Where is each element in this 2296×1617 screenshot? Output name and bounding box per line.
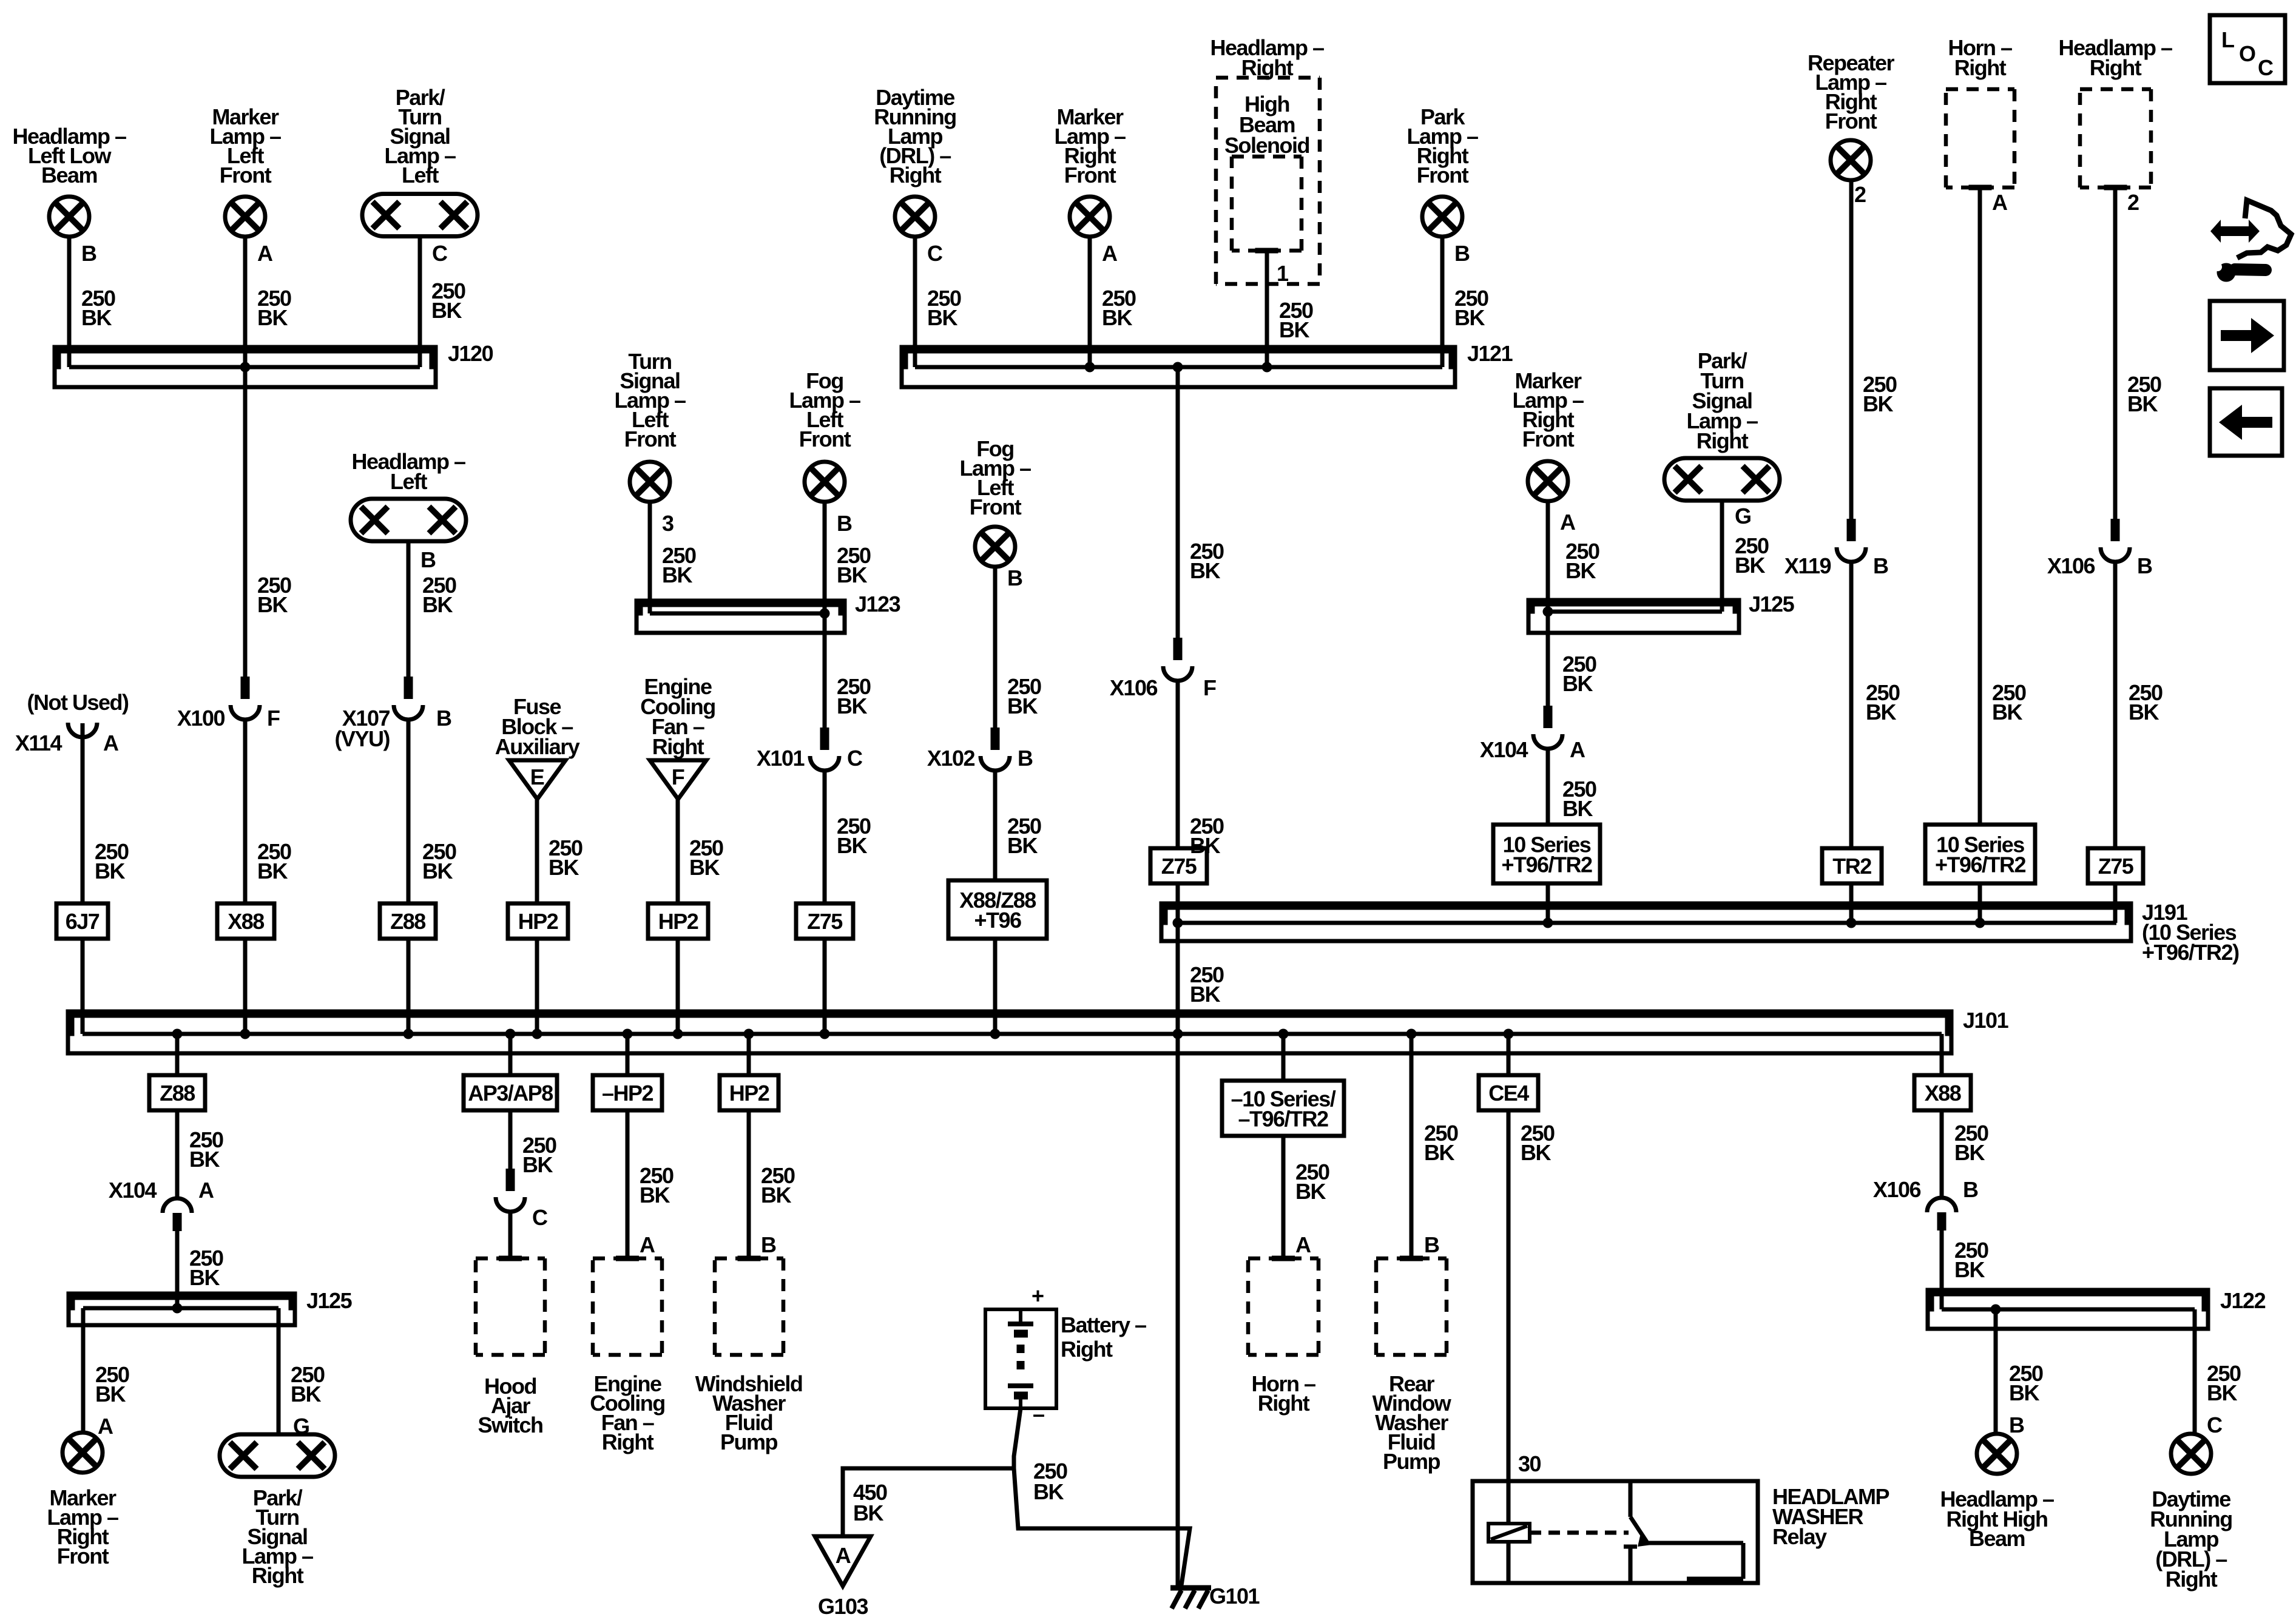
svg-text:A: A xyxy=(1560,510,1576,535)
svg-text:B: B xyxy=(837,511,852,536)
svg-text:Front: Front xyxy=(1064,163,1116,187)
wire Z75 to J191 xyxy=(2113,883,2118,923)
forward arrow box xyxy=(2210,301,2284,370)
svg-text:BK: BK xyxy=(640,1183,670,1207)
svg-text:BK: BK xyxy=(761,1183,791,1207)
label Marker Lamp - Right Front xyxy=(1054,104,1126,187)
svg-text:Beam: Beam xyxy=(41,163,97,187)
label Headlamp - Right xyxy=(1210,35,1324,80)
svg-text:BK: BK xyxy=(422,859,453,883)
svg-text:X119: X119 xyxy=(1784,553,1831,578)
wire value 250 BK xyxy=(1454,286,1488,330)
net box 10 Series +T96/TR2 xyxy=(1925,825,2035,883)
pin G xyxy=(1735,504,1751,528)
svg-text:BK: BK xyxy=(853,1501,883,1525)
lamp Headlamp - Right High Beam xyxy=(1977,1434,2017,1474)
svg-text:BK: BK xyxy=(1007,694,1038,718)
wire TR2 to J191 xyxy=(1849,883,1854,923)
svg-text:B: B xyxy=(2009,1413,2024,1437)
wire value 250 BK xyxy=(837,674,871,718)
wire J101 to G101 ground xyxy=(1176,1034,1180,1587)
wire J125 to X104 xyxy=(1546,612,1550,721)
svg-text:Auxiliary: Auxiliary xyxy=(495,734,580,759)
wire J101 to X88 xyxy=(1940,1034,1944,1075)
label X106 xyxy=(1110,675,1158,700)
component Windshield Washer Pump dashed box xyxy=(715,1258,783,1355)
label Hood Ajar Switch xyxy=(478,1374,542,1437)
label Marker Lamp - Right Front xyxy=(47,1485,118,1568)
svg-text:30: 30 xyxy=(1518,1451,1541,1476)
lamp Daytime Running Lamp - Right xyxy=(2171,1434,2211,1474)
connector X107 xyxy=(394,677,423,720)
svg-text:A: A xyxy=(836,1543,851,1568)
pin A xyxy=(1570,737,1585,762)
wire value 250 BK xyxy=(1190,962,1224,1007)
label Horn - Right xyxy=(1251,1371,1315,1416)
pin C xyxy=(2207,1413,2223,1437)
wire repeater 2 to X119 xyxy=(1849,180,1854,535)
svg-text:BK: BK xyxy=(189,1147,220,1172)
wire AP3/AP8 to C connector xyxy=(508,1110,513,1183)
net box Z88 xyxy=(380,903,436,939)
label X106 xyxy=(2047,553,2095,578)
wire J122 to headlamp high beam xyxy=(1994,1309,1998,1434)
svg-text:BK: BK xyxy=(2129,700,2159,724)
label Repeater Lamp - Right Front xyxy=(1808,50,1895,133)
wire 10-series to J191 xyxy=(1978,883,1982,923)
label J101 xyxy=(1963,1008,2009,1033)
wire value 250 BK xyxy=(837,543,871,587)
svg-text:BK: BK xyxy=(257,592,288,617)
svg-text:G: G xyxy=(1735,504,1751,528)
svg-text:Pump: Pump xyxy=(720,1430,778,1454)
wire X104 to 10-Series box xyxy=(1546,748,1550,825)
svg-text:–: – xyxy=(1033,1402,1044,1426)
wire X102 to X88/Z88 box xyxy=(993,769,998,880)
svg-text:BK: BK xyxy=(95,1382,126,1406)
svg-text:BK: BK xyxy=(1562,796,1593,821)
wire X104 to J125 xyxy=(175,1231,180,1308)
net box HP2 xyxy=(720,1075,778,1110)
wire J101 to Z88 xyxy=(175,1034,180,1075)
svg-text:CE4: CE4 xyxy=(1488,1081,1529,1106)
label X100 xyxy=(177,706,225,731)
wire J120 to X100 xyxy=(243,367,248,692)
net box Z75 xyxy=(1150,848,1207,883)
pin A xyxy=(1992,190,2008,215)
wire value 250 BK xyxy=(1954,1238,1988,1282)
pin B xyxy=(1454,241,1470,266)
label Marker Lamp - Left Front xyxy=(209,104,281,187)
wire J101 to CE4 xyxy=(1507,1034,1511,1075)
label Turn Signal Lamp - Left Front xyxy=(614,349,686,451)
wire value 250 BK xyxy=(662,543,696,587)
label Engine Cooling Fan - Right xyxy=(640,674,715,759)
wire value 250 BK xyxy=(2207,1361,2241,1405)
label Park/Turn Signal Lamp - Right xyxy=(241,1485,313,1588)
svg-text:G103: G103 xyxy=(818,1594,868,1617)
wire value 250 BK xyxy=(2129,680,2163,724)
splice pack J122 xyxy=(1928,1290,2208,1329)
svg-text:HP2: HP2 xyxy=(729,1081,769,1106)
svg-text:J101: J101 xyxy=(1963,1008,2009,1033)
connector X104 flipped xyxy=(163,1198,192,1231)
svg-text:L: L xyxy=(2221,27,2234,52)
pin B xyxy=(1007,565,1022,590)
wire value 250 BK xyxy=(1565,539,1599,583)
splice pack J125 xyxy=(1528,600,1739,633)
splice pack J101 xyxy=(68,1011,1951,1053)
connector X101 xyxy=(810,727,839,771)
svg-text:J125: J125 xyxy=(1749,592,1795,616)
svg-text:Front: Front xyxy=(970,495,1022,519)
wire value 250 BK xyxy=(95,839,129,883)
label X119 xyxy=(1784,553,1831,578)
wire value 250 BK xyxy=(1007,814,1041,858)
svg-text:Z88: Z88 xyxy=(160,1081,195,1106)
battery internal symbol xyxy=(1008,1309,1033,1408)
svg-text:BK: BK xyxy=(1992,700,2022,724)
pin A xyxy=(640,1232,655,1257)
wire Z75 through J191 to J101 xyxy=(1176,883,1180,1034)
label Park/Turn Signal Lamp - Left xyxy=(384,85,456,187)
svg-text:B: B xyxy=(1424,1232,1439,1257)
wire 450 BK branch to G103 xyxy=(843,1468,1014,1536)
label J125 xyxy=(306,1288,353,1313)
svg-text:BK: BK xyxy=(95,859,125,883)
connector X100 xyxy=(231,677,260,720)
wire battery negative to ground xyxy=(1014,1408,1190,1585)
wire value 250 BK xyxy=(1190,814,1224,858)
wire value 250 BK xyxy=(689,836,723,880)
net box 10 Series +T96/TR2 xyxy=(1493,825,1600,883)
wire value 250 BK xyxy=(81,286,115,330)
wire park/turn G to J125 xyxy=(1720,501,1724,612)
svg-text:B: B xyxy=(1018,746,1033,771)
pin B xyxy=(1873,553,1888,578)
svg-text:Right: Right xyxy=(890,163,942,187)
wire 6J7 to J101 xyxy=(81,939,85,1034)
svg-text:2: 2 xyxy=(2127,190,2139,215)
wire fuse block to HP2 box xyxy=(535,799,539,903)
splice pack J191 xyxy=(1161,903,2131,941)
svg-text:BK: BK xyxy=(1007,833,1038,858)
pin A xyxy=(1560,510,1576,535)
svg-text:–HP2: –HP2 xyxy=(602,1081,653,1106)
svg-text:B: B xyxy=(2137,553,2152,578)
svg-text:Pump: Pump xyxy=(1383,1449,1440,1474)
connector X106 F xyxy=(1163,638,1192,681)
wire J125 to park/turn lamp xyxy=(277,1308,281,1434)
svg-text:BK: BK xyxy=(1033,1479,1064,1504)
wire value 250 BK xyxy=(1033,1459,1067,1504)
net box X88/Z88 +T96 xyxy=(948,880,1047,939)
label G101 xyxy=(1209,1584,1260,1609)
svg-text:BK: BK xyxy=(2127,391,2158,416)
wire value 250 BK xyxy=(1735,533,1769,578)
svg-text:1: 1 xyxy=(1277,261,1289,286)
battery minus xyxy=(1033,1402,1044,1426)
connector X102 xyxy=(981,727,1010,771)
battery box xyxy=(985,1309,1056,1408)
svg-text:2: 2 xyxy=(1854,182,1866,207)
svg-text:O: O xyxy=(2239,41,2255,66)
net box TR2 xyxy=(1822,848,1882,883)
svg-text:BK: BK xyxy=(1562,671,1593,696)
svg-text:C: C xyxy=(927,241,943,266)
wire headlamp-left B to X107 xyxy=(407,541,411,692)
svg-text:AP3/AP8: AP3/AP8 xyxy=(468,1081,553,1106)
pin A xyxy=(1102,241,1118,266)
svg-text:BK: BK xyxy=(1190,982,1220,1007)
label Fog Lamp - Left Front xyxy=(789,368,860,451)
label J123 xyxy=(855,592,900,616)
svg-text:Right: Right xyxy=(2166,1567,2218,1592)
svg-text:Front: Front xyxy=(799,427,851,451)
svg-text:F: F xyxy=(672,765,684,789)
wire J121 to X106-F xyxy=(1176,367,1180,653)
wire CE4 to relay pin 30 xyxy=(1507,1110,1511,1481)
wire value 250 BK xyxy=(1279,298,1313,342)
svg-text:BK: BK xyxy=(1424,1140,1454,1165)
svg-text:Z88: Z88 xyxy=(390,909,425,934)
svg-text:BK: BK xyxy=(927,305,957,330)
fuse block auxiliary triangle E xyxy=(509,760,566,799)
connector X106 B xyxy=(2101,519,2130,562)
net box Z75 xyxy=(796,903,853,939)
wire value 250 BK xyxy=(1954,1121,1988,1165)
net box X88 xyxy=(217,903,274,939)
relay coil xyxy=(1488,1481,1530,1583)
label J121 xyxy=(1467,341,1513,366)
relay dashed actuator line xyxy=(1530,1531,1629,1535)
svg-text:Z75: Z75 xyxy=(2098,854,2134,879)
wire value 250 BK xyxy=(189,1127,223,1172)
svg-text:X88: X88 xyxy=(1925,1081,1961,1106)
pin 1 xyxy=(1277,261,1289,286)
wire value 250 BK xyxy=(1562,777,1596,821)
wire value 250 BK xyxy=(422,839,456,883)
connector X114 xyxy=(68,723,97,737)
pin B xyxy=(436,706,451,731)
component Horn - Right dashed box xyxy=(1946,89,2014,187)
pin 2 xyxy=(1854,182,1866,207)
label J191 (10 Series +T96/TR2) xyxy=(2142,900,2239,965)
wire DRL C to J121 xyxy=(913,237,917,367)
wire 10-Series box to J191 xyxy=(1546,883,1550,923)
svg-text:Right: Right xyxy=(602,1430,654,1454)
label J122 xyxy=(2220,1288,2266,1313)
wire X106 to Z75 box xyxy=(2113,561,2118,848)
pin C xyxy=(927,241,943,266)
wire value 250 BK xyxy=(257,839,291,883)
wire marker-right to J121 xyxy=(1088,237,1092,367)
component Rear Window Washer Pump dashed box xyxy=(1376,1258,1447,1355)
svg-text:X102: X102 xyxy=(927,746,975,771)
label Headlamp - Right xyxy=(2058,35,2172,80)
svg-text:Right: Right xyxy=(2090,55,2142,80)
svg-text:Right: Right xyxy=(1697,428,1749,453)
svg-text:BK: BK xyxy=(189,1265,220,1290)
wire X106 to Z75 xyxy=(1176,680,1180,848)
svg-text:BK: BK xyxy=(1521,1140,1551,1165)
wire X88 to X106 xyxy=(1940,1110,1944,1198)
lamp Turn Signal - Left Front xyxy=(630,462,670,502)
wire X88/Z88 to J101 xyxy=(993,939,998,1034)
label Fog Lamp - Left Front xyxy=(959,436,1031,519)
label Park/Turn Signal Lamp - Right xyxy=(1686,348,1758,453)
component Horn - Right dashed box xyxy=(1248,1258,1319,1355)
label X107 (VYU) xyxy=(335,706,390,751)
svg-text:BK: BK xyxy=(837,562,867,587)
svg-text:X104: X104 xyxy=(1480,737,1528,762)
pin B xyxy=(1963,1177,1978,1202)
pin B xyxy=(2137,553,2152,578)
svg-text:X106: X106 xyxy=(1110,675,1158,700)
lamp Headlamp - Left Low Beam xyxy=(49,197,89,237)
net box AP3/AP8 xyxy=(464,1075,557,1110)
lamp Park Lamp - Right Front xyxy=(1422,197,1462,237)
pin B xyxy=(1018,746,1033,771)
wire J123 to X101 xyxy=(823,613,827,743)
svg-text:TR2: TR2 xyxy=(1832,854,1871,879)
svg-text:BK: BK xyxy=(1279,317,1309,342)
pin C xyxy=(532,1205,548,1230)
svg-text:BK: BK xyxy=(257,305,288,330)
wire X88 to J101 xyxy=(243,939,248,1034)
splice pack J120 xyxy=(55,347,436,387)
wire fog lamp B to X102 xyxy=(993,567,998,743)
lamp Marker Lamp - Left Front xyxy=(225,197,265,237)
wire horn A to 10-series box xyxy=(1978,187,1982,825)
svg-text:BK: BK xyxy=(837,833,867,858)
label Headlamp - Left Low Beam xyxy=(12,124,126,187)
svg-text:BK: BK xyxy=(1102,305,1132,330)
service icon arrows and wrench xyxy=(2210,200,2291,282)
svg-text:X106: X106 xyxy=(1873,1177,1921,1202)
wire J101 to -HP2 xyxy=(626,1034,630,1075)
wire headlamp 2 to X106 xyxy=(2113,187,2118,535)
net box CE4 xyxy=(1479,1075,1538,1110)
svg-text:BK: BK xyxy=(257,859,288,883)
label Headlamp - Left xyxy=(351,449,465,494)
svg-text:J125: J125 xyxy=(306,1288,353,1313)
label G103 xyxy=(818,1594,868,1617)
wire X107 to Z88 box xyxy=(407,718,411,903)
net box Z75 xyxy=(2088,848,2143,883)
pin A xyxy=(257,241,273,266)
wire -HP2 to cooling fan xyxy=(626,1110,630,1258)
svg-text:+: + xyxy=(1032,1283,1044,1308)
svg-text:X101: X101 xyxy=(757,746,805,771)
pin C xyxy=(432,241,448,266)
svg-text:J122: J122 xyxy=(2220,1288,2266,1313)
svg-text:Beam: Beam xyxy=(1969,1526,2025,1551)
svg-text:B: B xyxy=(1873,553,1888,578)
svg-text:A: A xyxy=(257,241,273,266)
svg-text:C: C xyxy=(432,241,448,266)
connector C xyxy=(496,1169,525,1212)
svg-text:X88: X88 xyxy=(228,909,264,934)
wire C to hood ajar switch xyxy=(508,1210,513,1258)
wire value 250 BK xyxy=(927,286,961,330)
net box X88 xyxy=(1914,1075,1971,1110)
battery plus xyxy=(1032,1283,1044,1308)
ground G103 triangle xyxy=(815,1536,871,1586)
svg-text:+T96/TR2: +T96/TR2 xyxy=(1501,852,1592,877)
svg-text:Battery –: Battery – xyxy=(1061,1312,1146,1337)
svg-text:X106: X106 xyxy=(2047,553,2095,578)
high beam solenoid inner dashed box xyxy=(1232,157,1302,251)
pin C xyxy=(847,746,863,771)
svg-text:BK: BK xyxy=(1454,305,1485,330)
svg-text:Switch: Switch xyxy=(478,1413,542,1437)
wire value 250 BK xyxy=(1190,539,1224,583)
svg-text:+T96: +T96 xyxy=(974,908,1021,933)
svg-text:BK: BK xyxy=(1954,1140,1985,1165)
pin B xyxy=(837,511,852,536)
svg-text:A: A xyxy=(103,731,119,755)
wire value 250 BK xyxy=(422,573,456,617)
svg-text:–T96/TR2: –T96/TR2 xyxy=(1238,1107,1328,1132)
label Daytime Running Lamp (DRL) - Right xyxy=(2150,1487,2232,1592)
wire value 250 BK xyxy=(761,1163,795,1207)
svg-text:Front: Front xyxy=(220,163,272,187)
wire value 250 BK xyxy=(1007,674,1041,718)
wire value 250 BK xyxy=(1863,372,1897,416)
svg-text:B: B xyxy=(436,706,451,731)
svg-text:C: C xyxy=(2258,55,2274,80)
svg-text:BK: BK xyxy=(1295,1179,1326,1204)
svg-text:HP2: HP2 xyxy=(518,909,558,934)
net box Z88 xyxy=(149,1075,205,1110)
svg-text:C: C xyxy=(2207,1413,2223,1437)
svg-text:A: A xyxy=(1570,737,1585,762)
svg-text:Front: Front xyxy=(1825,109,1877,133)
relay HEADLAMP WASHER box xyxy=(1473,1481,1758,1583)
svg-text:BK: BK xyxy=(1866,700,1896,724)
label X106 xyxy=(1873,1177,1921,1202)
svg-text:BK: BK xyxy=(81,305,112,330)
lamp Headlamp - Left xyxy=(351,499,466,541)
svg-text:B: B xyxy=(1007,565,1022,590)
ground G101 symbol xyxy=(1170,1588,1211,1609)
label Battery - Right xyxy=(1061,1312,1146,1362)
wire J101 to HP2 xyxy=(747,1034,751,1075)
svg-text:Relay: Relay xyxy=(1772,1524,1827,1549)
wire cooling fan to HP2 box xyxy=(676,799,680,903)
svg-text:A: A xyxy=(640,1232,655,1257)
wire value 250 BK xyxy=(1424,1121,1458,1165)
svg-text:B: B xyxy=(1963,1177,1978,1202)
lamp Park/Turn Signal - Right xyxy=(1664,458,1780,501)
lamp Repeater - Right Front xyxy=(1831,140,1871,180)
wire value 250 BK xyxy=(1992,680,2026,724)
splice pack J121 xyxy=(902,347,1455,387)
label X104 xyxy=(1480,737,1528,762)
wire value 250 BK xyxy=(1521,1121,1555,1165)
wire value 250 BK xyxy=(257,573,291,617)
svg-text:BK: BK xyxy=(549,855,579,880)
pin B xyxy=(81,241,96,266)
svg-text:Left: Left xyxy=(390,469,428,494)
connector X119 xyxy=(1837,519,1866,562)
svg-text:A: A xyxy=(198,1178,214,1203)
label Park Lamp - Right Front xyxy=(1406,104,1478,187)
pin B xyxy=(2009,1413,2024,1437)
label Headlamp - Right High Beam xyxy=(1940,1487,2054,1551)
wire park lamp B to J121 xyxy=(1440,237,1445,367)
